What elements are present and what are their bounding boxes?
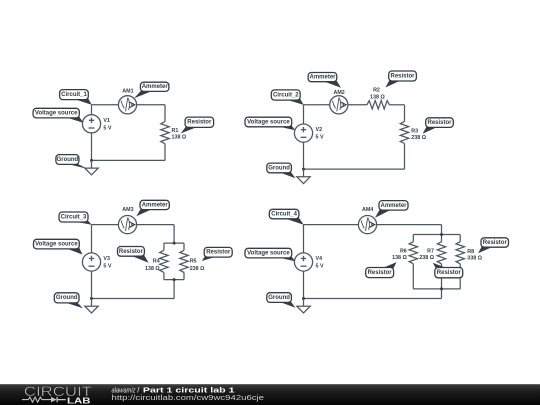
svg-text:Ammeter: Ammeter <box>142 202 169 208</box>
svg-text:AM4: AM4 <box>362 207 373 213</box>
wire circuit3 bottom <box>92 298 175 300</box>
svg-text:238 Ω: 238 Ω <box>411 135 426 141</box>
wire circuit4 parallel bottom connector <box>413 288 460 290</box>
svg-text:Circuit_1: Circuit_1 <box>61 92 87 98</box>
svg-text:R2: R2 <box>373 88 380 94</box>
svg-text:Voltage source: Voltage source <box>247 251 290 257</box>
wire circuit2 left <box>303 105 305 169</box>
svg-text:R1: R1 <box>172 128 179 134</box>
svg-text:Resistor: Resistor <box>483 240 508 246</box>
node circuit3 parallel top junction <box>173 242 176 245</box>
ground circuit2 <box>297 169 310 184</box>
node circuit4 parallel bottom junction <box>440 287 443 290</box>
callout Ammeter AM2 <box>308 73 341 88</box>
callout Ground circuit2 <box>267 163 296 178</box>
svg-text:Circuit_2: Circuit_2 <box>273 92 299 98</box>
callout Resistor R3 <box>423 118 454 134</box>
svg-text:Ground: Ground <box>268 165 290 171</box>
wire circuit1 top <box>92 104 166 106</box>
wire circuit4 feed down <box>441 225 443 235</box>
wire circuit4 R8 branch bottom <box>459 264 461 289</box>
svg-text:5 V: 5 V <box>316 264 324 270</box>
svg-text:V1: V1 <box>103 118 110 124</box>
svg-text:Voltage source: Voltage source <box>247 119 290 125</box>
logo diode symbol <box>51 397 66 402</box>
logo resistor zigzag <box>22 397 51 402</box>
callout Voltage source V4 <box>245 248 295 261</box>
resistor R8 <box>456 242 464 264</box>
ammeter AM2 <box>330 96 348 114</box>
svg-text:238 Ω: 238 Ω <box>190 266 205 272</box>
svg-text:138 Ω: 138 Ω <box>392 255 407 261</box>
svg-text:5 V: 5 V <box>103 264 111 270</box>
svg-text:Resistor: Resistor <box>187 120 212 126</box>
svg-text:AM3: AM3 <box>122 207 133 213</box>
wire circuit2 top right segment <box>389 104 404 106</box>
callout Ammeter AM4 <box>375 201 408 218</box>
wire circuit2 bottom <box>304 168 405 170</box>
svg-text:Ammeter: Ammeter <box>380 203 407 209</box>
wire circuit2 top left segment <box>304 104 368 106</box>
resistor R1 <box>161 122 169 144</box>
svg-text:R6: R6 <box>400 248 407 254</box>
resistor R6 <box>409 242 417 264</box>
svg-text:R4: R4 <box>153 259 160 265</box>
svg-text:http://circuitlab.com/cw9wc942: http://circuitlab.com/cw9wc942u6cje <box>112 393 265 402</box>
svg-text:R7: R7 <box>427 248 434 254</box>
svg-text:Resistor: Resistor <box>119 249 144 255</box>
wire circuit3 top <box>92 224 175 226</box>
wire circuit1 bottom <box>92 159 166 161</box>
callout Resistor R7 <box>433 263 463 278</box>
svg-text:Ammeter: Ammeter <box>309 75 336 81</box>
voltage source V1 <box>82 115 100 133</box>
svg-text:LAB: LAB <box>67 396 91 405</box>
wire circuit3 parallel bottom connector <box>164 279 184 281</box>
wire circuit3 left <box>91 225 93 299</box>
svg-text:Circuit_4: Circuit_4 <box>271 212 297 218</box>
svg-text:138 Ω: 138 Ω <box>370 95 385 101</box>
callout Voltage source V3 <box>34 239 83 254</box>
ammeter AM3 <box>118 216 136 234</box>
node circuit2 ground junction <box>302 168 305 171</box>
callout Ground circuit4 <box>267 293 296 308</box>
wire circuit4 left <box>303 225 305 299</box>
wire circuit4 R8 branch top <box>459 235 461 242</box>
wire circuit4 R6 branch bottom <box>412 264 414 289</box>
callout Resistor R8 <box>478 238 508 253</box>
svg-text:138 Ω: 138 Ω <box>145 266 160 272</box>
wire circuit2 right upper <box>404 105 406 122</box>
voltage source V3 <box>82 253 100 271</box>
wire circuit4 down to bottom <box>441 289 443 299</box>
wire circuit3 feed down <box>173 225 175 244</box>
svg-text:Voltage source: Voltage source <box>35 111 78 117</box>
callout Circuit_4 node <box>269 209 303 224</box>
svg-text:Ammeter: Ammeter <box>142 84 169 90</box>
wire circuit2 right lower <box>404 144 406 170</box>
callout Resistor R6 <box>366 262 397 278</box>
wire circuit4 top <box>304 224 442 226</box>
svg-text:Ground: Ground <box>57 157 79 163</box>
resistor R4 <box>160 250 168 272</box>
wire circuit3 R4 branch top <box>163 243 165 250</box>
node circuit3 ground junction <box>90 297 93 300</box>
svg-text:AM1: AM1 <box>122 89 133 95</box>
callout Circuit_1 node <box>60 90 92 105</box>
callout Circuit_3 node <box>59 212 92 225</box>
ammeter AM4 <box>358 216 376 234</box>
svg-text:138 Ω: 138 Ω <box>172 135 187 141</box>
callout Resistor R4 <box>118 247 149 263</box>
callout Resistor R2 <box>385 71 416 88</box>
ground circuit4 <box>297 299 310 314</box>
callout Voltage source V2 <box>245 117 295 130</box>
svg-text:5 V: 5 V <box>103 125 111 131</box>
callout Ground circuit1 <box>56 155 87 169</box>
svg-text:Resistor: Resistor <box>427 120 452 126</box>
svg-text:Ground: Ground <box>56 295 78 301</box>
svg-text:Resistor: Resistor <box>437 270 462 276</box>
resistor R2 <box>367 101 389 109</box>
svg-text:V4: V4 <box>316 256 323 262</box>
callout Voltage source V1 <box>33 108 83 122</box>
svg-text:5 V: 5 V <box>316 135 324 141</box>
wire circuit1 right upper <box>164 105 166 122</box>
svg-text:AM2: AM2 <box>334 90 345 96</box>
callout Ammeter AM1 <box>134 82 169 98</box>
callout Ammeter AM3 <box>136 200 169 216</box>
callout Ground circuit3 <box>54 293 83 308</box>
wire circuit1 right lower <box>164 144 166 161</box>
svg-text:338 Ω: 338 Ω <box>467 256 482 262</box>
wire circuit3 R5 branch bottom <box>183 272 185 279</box>
wire circuit3 R4 branch bottom <box>163 272 165 279</box>
node circuit4 ground junction <box>302 297 305 300</box>
wire circuit3 parallel top connector <box>164 242 184 244</box>
ground circuit1 <box>85 160 98 175</box>
node circuit4 parallel top junction <box>440 233 443 236</box>
voltage source V2 <box>294 124 312 142</box>
svg-text:V3: V3 <box>103 256 110 262</box>
wire circuit4 R7 branch top <box>441 235 443 242</box>
callout Resistor R5 <box>202 247 232 261</box>
footer bar <box>0 384 540 405</box>
resistor R5 <box>180 250 188 272</box>
svg-text:Voltage source: Voltage source <box>35 242 78 248</box>
wire circuit4 R7 branch bottom <box>441 264 443 289</box>
svg-text:238 Ω: 238 Ω <box>419 255 434 261</box>
callout Circuit_2 node <box>271 90 303 105</box>
wire circuit4 bottom <box>304 298 442 300</box>
node circuit1 ground junction <box>90 159 93 162</box>
node circuit3 parallel bottom junction <box>173 278 176 281</box>
svg-text:Circuit_3: Circuit_3 <box>61 214 87 220</box>
svg-text:Resistor: Resistor <box>390 73 415 79</box>
ammeter AM1 <box>118 96 136 114</box>
svg-text:Resistor: Resistor <box>206 250 231 256</box>
wire circuit3 R5 branch top <box>183 243 185 250</box>
svg-text:R5: R5 <box>190 259 197 265</box>
resistor R7 <box>437 242 445 264</box>
svg-text:R3: R3 <box>411 128 418 134</box>
wire circuit3 down to bottom <box>173 280 175 299</box>
wire circuit1 left <box>91 105 93 161</box>
svg-text:V2: V2 <box>316 127 323 133</box>
resistor R3 <box>400 121 408 143</box>
svg-text:Ground: Ground <box>268 295 290 301</box>
svg-text:Resistor: Resistor <box>368 270 393 276</box>
wire circuit4 R6 branch top <box>412 235 414 242</box>
wire circuit4 parallel top connector <box>413 234 460 236</box>
ground circuit3 <box>85 299 98 314</box>
voltage source V4 <box>294 253 312 271</box>
callout Resistor R1 <box>181 117 214 133</box>
svg-text:R8: R8 <box>467 249 474 255</box>
